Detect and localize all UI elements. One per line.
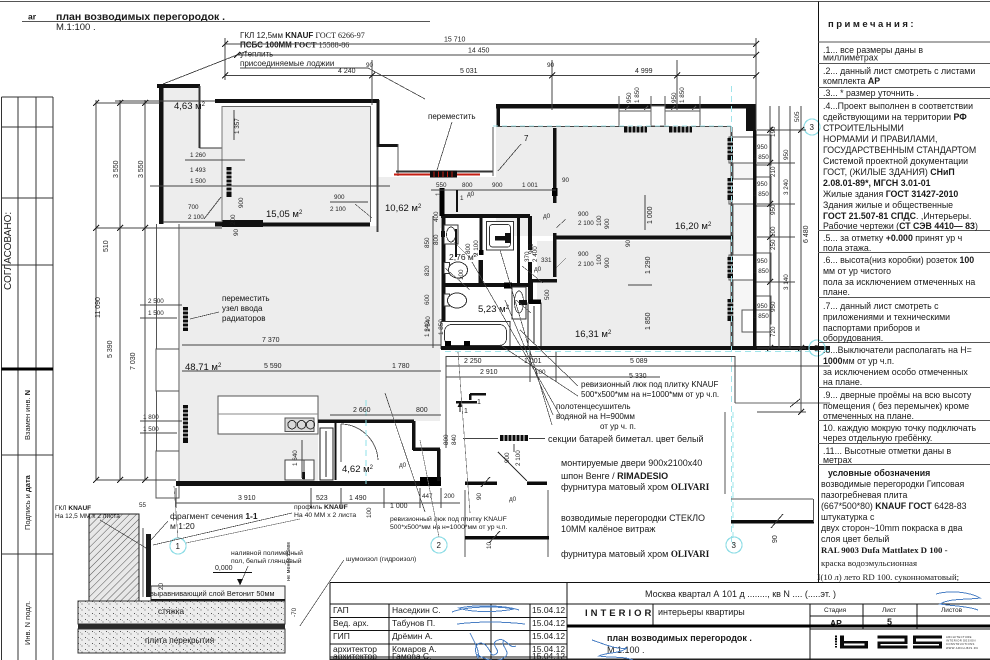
svg-text:Рабочие чертежи (СТ СЭВ 4410—: Рабочие чертежи (СТ СЭВ 4410— 83)	[823, 221, 978, 231]
svg-text:ГОСУДАРСТВЕННЫМ СТАНДАРТОМ: ГОСУДАРСТВЕННЫМ СТАНДАРТОМ	[823, 145, 976, 155]
svg-text:2 100: 2 100	[473, 240, 480, 256]
svg-text:900: 900	[238, 197, 245, 208]
svg-text:монтируемые двери 900х2100х40: монтируемые двери 900х2100х40	[561, 458, 702, 468]
west wall of bathrooms	[442, 216, 446, 348]
svg-text:профиль KNAUF: профиль KNAUF	[294, 504, 348, 511]
svg-text:800: 800	[416, 407, 428, 414]
svg-text:16,31 м2: 16,31 м2	[575, 329, 612, 340]
svg-text:950: 950	[757, 258, 768, 265]
loggia top wall	[157, 84, 200, 88]
room 4,63 fill	[163, 88, 199, 222]
left window recesses	[156, 349, 179, 391]
dims inside 48,71	[182, 344, 441, 346]
cyan dashes along south wall	[445, 351, 830, 353]
svg-text:.8...Выключатели располагать н: .8...Выключатели располагать на Н=	[823, 345, 972, 355]
svg-text:1 000: 1 000	[647, 206, 654, 224]
svg-text:М.1:100 .: М.1:100 .	[56, 22, 96, 33]
svg-text:Наседкин С.: Наседкин С.	[392, 605, 441, 615]
svg-text:1 850: 1 850	[753, 154, 769, 161]
svg-text:10. каждую мокрую точку подклю: 10. каждую мокрую точку подключать	[823, 423, 976, 433]
svg-text:55: 55	[139, 502, 147, 509]
leaders bathroom cluster	[445, 240, 543, 313]
left outer wall of 48,71 (double thin)	[156, 224, 158, 498]
svg-text:5 089: 5 089	[630, 358, 648, 365]
svg-text:500*х500*мм на н=1000*мм от ур: 500*х500*мм на н=1000*мм от ур ч.п.	[581, 390, 719, 399]
svg-text:пола за исключением отмеченных: пола за исключением отмеченных на	[823, 277, 975, 287]
svg-text:1 000: 1 000	[390, 503, 408, 510]
fixtures WC 2,76: sink	[444, 225, 458, 244]
стяжка band	[78, 601, 285, 624]
svg-text:помещения ( без перемычек) кро: помещения ( без перемычек) кроме	[823, 401, 969, 411]
signatures blue	[452, 592, 980, 660]
svg-text:3 140: 3 140	[783, 274, 790, 290]
svg-text:за исключением особо отмеченны: за исключением особо отмеченных	[823, 367, 968, 377]
svg-text:возводимые перегородки Гипсова: возводимые перегородки Гипсовая	[821, 479, 965, 489]
секции батарей	[500, 435, 528, 441]
svg-text:5 031: 5 031	[460, 68, 478, 75]
svg-text:90: 90	[772, 535, 779, 543]
svg-text:5 590: 5 590	[264, 363, 282, 370]
svg-text:.5... за отметку +0.000 принят: .5... за отметку +0.000 принят ур ч	[823, 233, 962, 243]
svg-text:500: 500	[544, 289, 551, 300]
svg-text:интерьеры квартиры: интерьеры квартиры	[658, 607, 745, 617]
right wall window recesses	[729, 137, 757, 163]
svg-text:оборудования.: оборудования.	[823, 333, 883, 343]
notes text	[817, 45, 978, 582]
svg-text:Дрёмин А.: Дрёмин А.	[392, 631, 433, 641]
svg-text:Системой проектной документаци: Системой проектной документации	[823, 156, 968, 166]
svg-text:штукатурка с: штукатурка с	[821, 512, 875, 522]
svg-text:100: 100	[596, 254, 603, 265]
svg-text:Жилые здания ГОСТ 31427-2010: Жилые здания ГОСТ 31427-2010	[823, 189, 958, 199]
svg-text:переместить: переместить	[428, 112, 476, 121]
svg-text:INTERIOR: INTERIOR	[585, 608, 654, 619]
svg-text:3 550: 3 550	[138, 160, 145, 178]
svg-text:2 100: 2 100	[515, 450, 522, 466]
svg-text:90: 90	[562, 177, 570, 184]
svg-text:800: 800	[462, 182, 473, 189]
svg-text:1 850: 1 850	[753, 268, 769, 275]
svg-text:1: 1	[435, 192, 442, 196]
svg-text:4,62 м2: 4,62 м2	[342, 464, 374, 475]
svg-text:переместить: переместить	[222, 294, 270, 303]
svg-text:900: 900	[578, 211, 589, 218]
svg-text:400: 400	[433, 211, 440, 222]
svg-text:700: 700	[188, 204, 199, 211]
leader to loggia corner	[163, 51, 247, 84]
svg-text:на плане.: на плане.	[823, 377, 862, 387]
svg-text:Стадия: Стадия	[824, 607, 847, 614]
cyan vertical axis right wall	[731, 86, 733, 545]
svg-text:950: 950	[626, 92, 633, 103]
svg-text:15.04.12: 15.04.12	[532, 651, 565, 660]
svg-text:выравнивающий слой Ветонит 50м: выравнивающий слой Ветонит 50мм	[150, 589, 275, 598]
svg-text:Вед. арх.: Вед. арх.	[333, 618, 369, 628]
svg-text:800: 800	[433, 234, 440, 245]
svg-text:АР: АР	[830, 618, 842, 628]
room 15,05 fill	[222, 106, 370, 224]
svg-text:шумоизол (гидроизол): шумоизол (гидроизол)	[346, 556, 416, 563]
4,62 east jog walls	[412, 421, 416, 450]
svg-text:1 290: 1 290	[645, 256, 652, 274]
svg-text:100: 100	[458, 269, 465, 280]
left dimension chains	[96, 100, 222, 480]
svg-text:план возводимых перегородок .: план возводимых перегородок .	[607, 633, 752, 643]
svg-text:15,05 м2: 15,05 м2	[266, 209, 303, 220]
svg-text:2 910: 2 910	[480, 369, 498, 376]
room 16,31 fill	[537, 241, 731, 346]
svg-text:СТРОИТЕЛЬНЫМИ: СТРОИТЕЛЬНЫМИ	[823, 123, 904, 133]
плита перекрытия band	[78, 629, 285, 653]
svg-text:1: 1	[477, 399, 481, 406]
svg-text:90: 90	[476, 492, 483, 500]
svg-text:Взамен инв. N: Взамен инв. N	[23, 390, 32, 440]
svg-text:5: 5	[887, 617, 892, 627]
svg-text:RAL 9003 Dufa Mattlatex D 100: RAL 9003 Dufa Mattlatex D 100 -	[821, 545, 948, 555]
svg-text:90: 90	[233, 228, 240, 236]
svg-text:.7... данный лист смотреть с: .7... данный лист смотреть с	[823, 301, 939, 311]
svg-text:15.04.12: 15.04.12	[532, 631, 565, 641]
svg-text:90: 90	[547, 62, 555, 69]
svg-text:WWW.ARCH-B2S.RU: WWW.ARCH-B2S.RU	[946, 646, 978, 650]
svg-text:д0: д0	[467, 191, 475, 198]
dims inside bathrooms	[456, 190, 458, 212]
svg-text:950: 950	[770, 204, 777, 215]
hallway chain 550/800/900/1001	[431, 189, 556, 191]
black jamb 447/200	[420, 477, 441, 486]
svg-text:Табунов П.: Табунов П.	[392, 618, 435, 628]
hatched wall block	[89, 514, 139, 601]
notes border	[818, 2, 820, 583]
chain below bottom wall: 2250/1001/5089	[446, 352, 830, 448]
svg-text:приложениями и техническими: приложениями и техническими	[823, 312, 950, 322]
top wall of 15,05	[215, 99, 379, 103]
svg-text:ревизионный люк под плитку KNA: ревизионный люк под плитку KNAUF	[581, 380, 719, 389]
svg-text:фурнитура матовый хром OLIVARI: фурнитура матовый хром OLIVARI	[561, 482, 710, 492]
svg-text:100: 100	[366, 507, 373, 518]
north wall of bathrooms	[441, 214, 530, 218]
svg-text:.6... высота(низ коробки) роз: .6... высота(низ коробки) розеток 100	[823, 255, 974, 265]
svg-text:комплекта АР: комплекта АР	[823, 76, 880, 86]
svg-text:д0: д0	[399, 462, 407, 469]
glass partition right	[731, 498, 813, 500]
svg-text:-70: -70	[291, 607, 298, 617]
bottom wall of 15,05	[215, 223, 370, 227]
black jambs	[504, 283, 512, 289]
svg-text:паспортами приборов и: паспортами приборов и	[823, 323, 920, 333]
vetonit band	[151, 586, 285, 600]
svg-text:1 850: 1 850	[753, 313, 769, 320]
4,62 door swing	[341, 424, 378, 460]
svg-text:2 660: 2 660	[353, 407, 371, 414]
svg-text:На 40 ММ х 2 листа: На 40 ММ х 2 листа	[294, 512, 356, 519]
svg-text:1000мм от ур ч.п.: 1000мм от ур ч.п.	[823, 356, 894, 366]
svg-text:ревизионный люк под плитку KNA: ревизионный люк под плитку KNAUF	[390, 515, 507, 523]
svg-text:950: 950	[757, 144, 768, 151]
oven blocks at bottom wall	[285, 460, 314, 480]
svg-text:ГИП: ГИП	[333, 631, 350, 641]
door swing loggia to 15,05	[204, 197, 221, 219]
svg-text:ARCHITECTURE: ARCHITECTURE	[946, 635, 972, 639]
шумоизол thin band	[78, 624, 285, 629]
svg-text:3 550: 3 550	[113, 160, 120, 178]
svg-text:.9... дверные проёмы на всю вы: .9... дверные проёмы на всю высоту	[823, 390, 972, 400]
svg-text:1 850: 1 850	[753, 191, 769, 198]
svg-text:523: 523	[316, 495, 328, 502]
svg-text:600: 600	[424, 294, 431, 305]
west wall stub black (hall)	[440, 188, 445, 216]
svg-text:Гамова С.: Гамова С.	[392, 651, 431, 660]
svg-text:190: 190	[770, 126, 777, 137]
svg-text:5,23 м2: 5,23 м2	[478, 304, 510, 315]
svg-text:100: 100	[596, 215, 603, 226]
right side dimension chains	[757, 106, 806, 412]
svg-text:800: 800	[465, 243, 472, 254]
svg-text:1 490: 1 490	[349, 495, 367, 502]
svg-text:краска водоэмульсионная: краска водоэмульсионная	[821, 558, 917, 568]
svg-text:радиаторов: радиаторов	[222, 314, 265, 323]
sheet bottom border	[330, 658, 990, 660]
leader lines from circles	[186, 519, 300, 543]
svg-text:мм от ур чистого: мм от ур чистого	[823, 266, 891, 276]
svg-text:INTERIOR DESIGN: INTERIOR DESIGN	[946, 639, 976, 643]
right outside sill boxes	[756, 135, 771, 165]
svg-text:1 493: 1 493	[190, 167, 206, 174]
svg-text:утеплить: утеплить	[240, 50, 273, 59]
svg-text:ГКЛ 12,5мм KNAUF ГОСТ 6266-97: ГКЛ 12,5мм KNAUF ГОСТ 6266-97	[240, 31, 365, 40]
svg-text:10: 10	[486, 541, 493, 549]
svg-text:слоя цвет белый: слоя цвет белый	[821, 534, 889, 544]
svg-text:20: 20	[158, 582, 165, 590]
svg-text:2: 2	[437, 541, 442, 550]
svg-text:условные обозначения: условные обозначения	[828, 468, 930, 478]
sheet top border	[0, 1, 990, 3]
corner block	[746, 106, 756, 131]
svg-text:510: 510	[103, 240, 110, 252]
corridor jog wall	[530, 279, 557, 283]
wall segment below door to 16,20	[553, 233, 557, 277]
svg-text:1 800: 1 800	[143, 414, 159, 421]
svg-text:950: 950	[783, 149, 790, 160]
svg-text:720: 720	[770, 326, 777, 337]
left sheet frame columns	[2, 97, 54, 660]
svg-text:ar: ar	[28, 12, 37, 22]
svg-text:Здания жилые и общественные: Здания жилые и общественные	[823, 200, 953, 210]
svg-text:1 850: 1 850	[679, 87, 686, 103]
bottom wall 16,31 and whole south side	[441, 346, 830, 350]
svg-text:15 710: 15 710	[444, 37, 466, 44]
svg-text:16,20 м2: 16,20 м2	[675, 221, 712, 232]
step wall down at x=378	[377, 100, 380, 147]
svg-text:секции батарей биметал. цвет б: секции батарей биметал. цвет белый	[548, 434, 704, 444]
svg-text:10,62 м2: 10,62 м2	[385, 203, 422, 214]
svg-text:5 390: 5 390	[107, 340, 114, 358]
wall WC/shower	[480, 216, 483, 250]
bathroom 5,23 toilet	[444, 294, 450, 306]
svg-text:950: 950	[770, 301, 777, 312]
door opening symbol d0	[465, 482, 497, 486]
svg-text:д0: д0	[543, 213, 551, 220]
svg-text:505: 505	[794, 111, 801, 122]
radiator on red line	[430, 171, 457, 178]
svg-text:2 100: 2 100	[578, 220, 594, 227]
door leaf to 16,31	[528, 303, 541, 347]
svg-text:1 357: 1 357	[234, 118, 241, 134]
svg-text:м 1:20: м 1:20	[170, 521, 195, 531]
svg-text:ГКЛ KNAUF: ГКЛ KNAUF	[55, 505, 91, 512]
svg-text:11 090: 11 090	[95, 297, 102, 318]
glass partition living room	[465, 536, 549, 540]
svg-text:14 450: 14 450	[468, 48, 490, 55]
middle horizontal wall	[443, 283, 532, 287]
svg-text:4 240: 4 240	[338, 68, 356, 75]
svg-text:присоединяемые лоджии: присоединяемые лоджии	[240, 59, 334, 68]
svg-text:2 250: 2 250	[464, 358, 482, 365]
room 48,71 fill	[180, 226, 440, 481]
svg-text:1 780: 1 780	[392, 363, 410, 370]
loggia lower gray	[199, 148, 222, 222]
svg-text:2 100: 2 100	[330, 206, 346, 213]
wall right of 4,63 (thin)	[199, 86, 201, 148]
bathroom sink right	[512, 287, 526, 319]
svg-text:1 500: 1 500	[190, 178, 206, 185]
svg-text:через отдельную гребёнку.: через отдельную гребёнку.	[823, 433, 932, 443]
svg-text:2 100: 2 100	[188, 214, 204, 221]
svg-text:950: 950	[757, 181, 768, 188]
svg-text:1 260: 1 260	[190, 152, 206, 159]
shower east wall	[517, 216, 520, 286]
WC door leaf	[455, 229, 457, 257]
svg-text:15.04.12: 15.04.12	[532, 618, 565, 628]
svg-text:900: 900	[604, 218, 611, 229]
svg-text:Москва квартал А 101 д .......: Москва квартал А 101 д ........, кв N ..…	[645, 589, 836, 599]
svg-text:1: 1	[460, 195, 464, 202]
wall between 15,05 and hallway (x=370..378)	[370, 106, 372, 222]
svg-text:90: 90	[366, 62, 374, 69]
svg-text:от ур ч. п.: от ур ч. п.	[600, 422, 636, 431]
svg-text:пазогребневая плита: пазогребневая плита	[821, 490, 907, 500]
svg-text:7: 7	[524, 134, 529, 143]
section mark bottom-left	[98, 596, 114, 602]
svg-text:4 999: 4 999	[635, 68, 653, 75]
loggia left wall	[159, 84, 164, 224]
svg-text:СОГЛАСОВАНО:: СОГЛАСОВАНО:	[3, 212, 14, 290]
svg-text:I(10 л) лето RD 100. суконнома: I(10 л) лето RD 100. суконноматовый;	[817, 572, 959, 582]
svg-text:1 850: 1 850	[645, 312, 652, 330]
svg-text:ПСБС 100ММ ГОСТ 15588-86: ПСБС 100ММ ГОСТ 15588-86	[240, 41, 349, 50]
svg-text:2.08.01-89*, МГСН 3.01-01: 2.08.01-89*, МГСН 3.01-01	[823, 178, 931, 188]
svg-text:д0: д0	[534, 266, 542, 273]
radiators under windows	[624, 127, 692, 133]
wall block bottom of 4,63	[222, 220, 263, 227]
svg-text:900: 900	[604, 257, 611, 268]
svg-text:ГАП: ГАП	[333, 605, 349, 615]
svg-text:1 340: 1 340	[425, 316, 432, 332]
svg-text:820: 820	[424, 265, 431, 276]
svg-text:250: 250	[770, 239, 777, 250]
svg-text:200: 200	[444, 493, 455, 500]
shower tray	[487, 222, 514, 251]
svg-text:3 910: 3 910	[238, 495, 256, 502]
window band inner line	[498, 126, 731, 128]
svg-text:.3... * размер уточнить .: .3... * размер уточнить .	[823, 88, 919, 98]
WC toilet	[444, 263, 450, 274]
east wall of bathrooms	[528, 216, 532, 250]
svg-text:стяжка: стяжка	[158, 607, 185, 616]
svg-text:550: 550	[436, 182, 447, 189]
radiators on right wall	[728, 138, 734, 321]
right outer wall	[753, 104, 757, 350]
kitchen island	[218, 396, 318, 434]
svg-text:.4...Проект выполнен в соответ: .4...Проект выполнен в соответствии	[823, 101, 973, 111]
svg-text:фрагмент сечения 1-1: фрагмент сечения 1-1	[170, 511, 258, 521]
wall between hallway and 16,20	[553, 128, 557, 203]
svg-text:примечания:: примечания:	[828, 19, 916, 30]
cyan circled numbers	[170, 119, 825, 554]
svg-text:сдействующими на территории РФ: сдействующими на территории РФ	[823, 112, 967, 122]
bottom outer wall of 48,71	[176, 481, 441, 486]
svg-text:10ММ калёное витраж: 10ММ калёное витраж	[561, 524, 655, 534]
svg-text:1 500: 1 500	[148, 310, 164, 317]
svg-text:1 640: 1 640	[292, 450, 299, 466]
svg-text:наливной полимерный: наливной полимерный	[231, 549, 303, 557]
radiator on 15,05 left wall	[227, 167, 232, 197]
bathtub	[441, 322, 510, 349]
svg-text:7 370: 7 370	[262, 337, 280, 344]
svg-text:900: 900	[528, 243, 535, 254]
short wall at notch top	[377, 144, 398, 147]
witness lines	[464, 490, 466, 557]
bottom chain 3910/523/1490	[176, 488, 460, 508]
svg-text:водяной на Н=900мм: водяной на Н=900мм	[556, 412, 635, 421]
svg-text:двух сторон~10mm покраска в дв: двух сторон~10mm покраска в два	[821, 523, 963, 533]
svg-text:фурнитура матовый хром OLIVARI: фурнитура матовый хром OLIVARI	[561, 549, 710, 559]
svg-text:узел ввода: узел ввода	[222, 304, 263, 313]
svg-text:200: 200	[230, 214, 237, 225]
svg-text:Листов: Листов	[941, 607, 963, 614]
window lines in band	[619, 96, 700, 126]
stove	[285, 418, 314, 432]
шумоизол leader from 2 circle	[420, 440, 439, 537]
svg-text:1 500: 1 500	[143, 426, 159, 433]
svg-text:миллиметрах: миллиметрах	[823, 53, 879, 63]
svg-text:800: 800	[443, 434, 450, 445]
4,62 north wall	[318, 419, 414, 423]
svg-text:На 12,5 ММ х 2 листа: На 12,5 ММ х 2 листа	[55, 513, 120, 520]
svg-text:ГОСТ 21.507-81 СПДС. ,Интерьер: ГОСТ 21.507-81 СПДС. ,Интерьеры.	[823, 211, 971, 221]
svg-text:д0: д0	[509, 496, 517, 503]
room 16,20 fill	[496, 127, 731, 236]
svg-text:Инв. N подл.: Инв. N подл.	[23, 601, 32, 645]
logo b2s	[835, 636, 942, 649]
svg-text:900: 900	[492, 182, 503, 189]
svg-text:ГОСТ, (ЖИЛЫЕ ЗДАНИЯ) СНиП: ГОСТ, (ЖИЛЫЕ ЗДАНИЯ) СНиП	[823, 167, 955, 177]
svg-text:шпон Венге / RIMADESIO: шпон Венге / RIMADESIO	[561, 471, 668, 481]
svg-text:331: 331	[541, 257, 552, 264]
svg-text:1 001: 1 001	[522, 182, 538, 189]
svg-text:1: 1	[464, 408, 468, 415]
svg-text:1 850: 1 850	[634, 87, 641, 103]
svg-text:3: 3	[732, 541, 737, 550]
svg-text:3: 3	[810, 123, 815, 132]
svg-text:1 850: 1 850	[438, 319, 445, 335]
ticks right chains	[767, 127, 804, 415]
svg-text:900: 900	[334, 194, 345, 201]
svg-text:1: 1	[176, 542, 181, 551]
svg-text:Лист: Лист	[882, 607, 896, 614]
svg-text:6 480: 6 480	[803, 225, 810, 243]
svg-text:7 030: 7 030	[130, 352, 137, 370]
